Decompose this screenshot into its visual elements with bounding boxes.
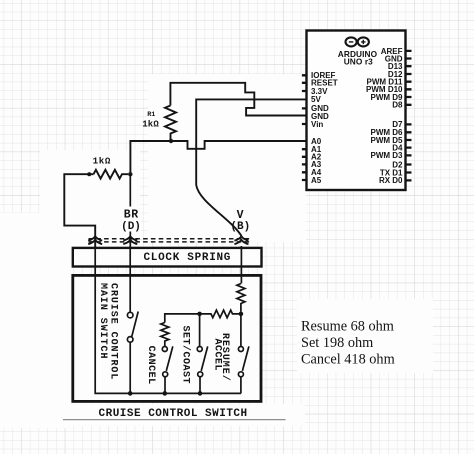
switch resume/accel: [238, 346, 249, 393]
resistor set 198 ohm (horizontal): [202, 310, 239, 318]
svg-text:ACCEL: ACCEL: [212, 339, 223, 372]
wire set junction to switch: [199, 314, 201, 346]
connector chevron V: [234, 236, 248, 244]
label 1 kOhm: [142, 120, 159, 130]
right pin labels: [366, 47, 403, 185]
resistor 1k horizontal: [89, 170, 128, 179]
svg-text:CRUISE CONTROL: CRUISE CONTROL: [108, 283, 119, 380]
svg-text:RX D0: RX D0: [379, 176, 403, 185]
wire to cancel resistor: [165, 314, 200, 323]
wire curve to V terminal: [196, 185, 241, 236]
label R1: [147, 111, 155, 119]
note Set 198 ohm: [301, 335, 373, 351]
label V: [237, 209, 244, 222]
wire node to 1k resistor: [130, 141, 171, 172]
svg-text:Cancel 418 ohm: Cancel 418 ohm: [301, 352, 395, 368]
wire left return inside box: [95, 246, 130, 393]
resistor cancel 418 ohm: [161, 323, 169, 347]
svg-text:PWM D3: PWM D3: [371, 151, 404, 160]
wire bottom rail: [130, 392, 241, 394]
label (D): [121, 221, 141, 233]
svg-text:UNO r3: UNO r3: [344, 57, 373, 67]
svg-text:Resume 68 ohm: Resume 68 ohm: [301, 319, 394, 335]
Arduino U1 body: [307, 31, 406, 191]
resistor R1: [165, 106, 176, 142]
svg-text:A5: A5: [311, 176, 322, 185]
node set junction: [197, 312, 202, 317]
right pin stubs: [406, 51, 412, 181]
label CRUISE CONTROL SWITCH: [99, 408, 248, 420]
node cancel/rail: [163, 391, 168, 396]
label CLOCK SPRING: [144, 252, 232, 264]
svg-text:CANCEL: CANCEL: [145, 346, 156, 385]
svg-text:5V: 5V: [311, 95, 321, 104]
wire V into box to resistor: [240, 246, 242, 284]
clock spring box: [73, 248, 262, 267]
svg-text:MAIN SWITCH: MAIN SWITCH: [97, 283, 108, 359]
wire BR down: [129, 174, 131, 247]
svg-text:1kΩ: 1kΩ: [93, 156, 111, 167]
svg-text:BR: BR: [124, 208, 139, 221]
label SET/COAST (vertical): [180, 326, 192, 385]
svg-text:(B): (B): [230, 221, 250, 233]
pencil underline: [63, 419, 286, 421]
svg-text:CLOCK SPRING: CLOCK SPRING: [144, 252, 232, 264]
svg-text:R1: R1: [147, 111, 155, 119]
switch set/coast: [197, 346, 208, 393]
label CANCEL (vertical): [145, 346, 156, 385]
node main/rail: [128, 391, 133, 396]
node resume junction: [239, 312, 244, 317]
connector chevron left: [88, 236, 102, 244]
cruise control switch box: [73, 275, 261, 401]
dashed connector lines: [89, 239, 252, 242]
label ACCEL (vertical): [212, 339, 223, 372]
label RESUME/ (vertical): [219, 333, 231, 382]
label 1 kOhm (left resistor): [93, 156, 111, 167]
wire left loop to clock spring: [64, 174, 95, 247]
wire 5V to node: [196, 99, 306, 185]
note Cancel 418 ohm: [301, 352, 395, 368]
left pin stubs: [302, 75, 307, 180]
switch cancel: [162, 346, 173, 393]
note Resume 68 ohm: [301, 319, 394, 335]
svg-text:(D): (D): [121, 221, 141, 233]
wire resume junction to switch: [240, 314, 242, 346]
wire R1 top to GND pin: [170, 83, 306, 116]
node left of 1k: [87, 172, 91, 176]
node set/rail: [198, 391, 203, 396]
label MAIN SWITCH (vertical): [97, 283, 108, 359]
svg-text:1kΩ: 1kΩ: [142, 120, 159, 130]
wire BR into box to switch: [129, 246, 131, 312]
node right of 1k (BR): [128, 172, 132, 176]
svg-text:SET/COAST: SET/COAST: [180, 326, 192, 385]
connector chevron BR: [123, 236, 137, 244]
switch S1 main: [127, 312, 138, 394]
wire A0 with crossover jog: [171, 141, 307, 149]
label CRUISE CONTROL (vertical): [108, 283, 119, 380]
svg-text:Set 198 ohm: Set 198 ohm: [301, 335, 373, 351]
Arduino logo: [346, 37, 369, 46]
label BR: [122, 207, 141, 232]
svg-text:Vin: Vin: [311, 120, 323, 129]
label ARDUINO UNO r3: [338, 49, 378, 67]
svg-text:D8: D8: [392, 101, 403, 110]
left pin labels: [311, 71, 338, 185]
resistor resume 68 ohm: [237, 284, 245, 312]
node A0/R1 junction: [169, 139, 173, 143]
svg-text:CRUISE CONTROL SWITCH: CRUISE CONTROL SWITCH: [99, 408, 248, 420]
label (B): [230, 221, 250, 233]
